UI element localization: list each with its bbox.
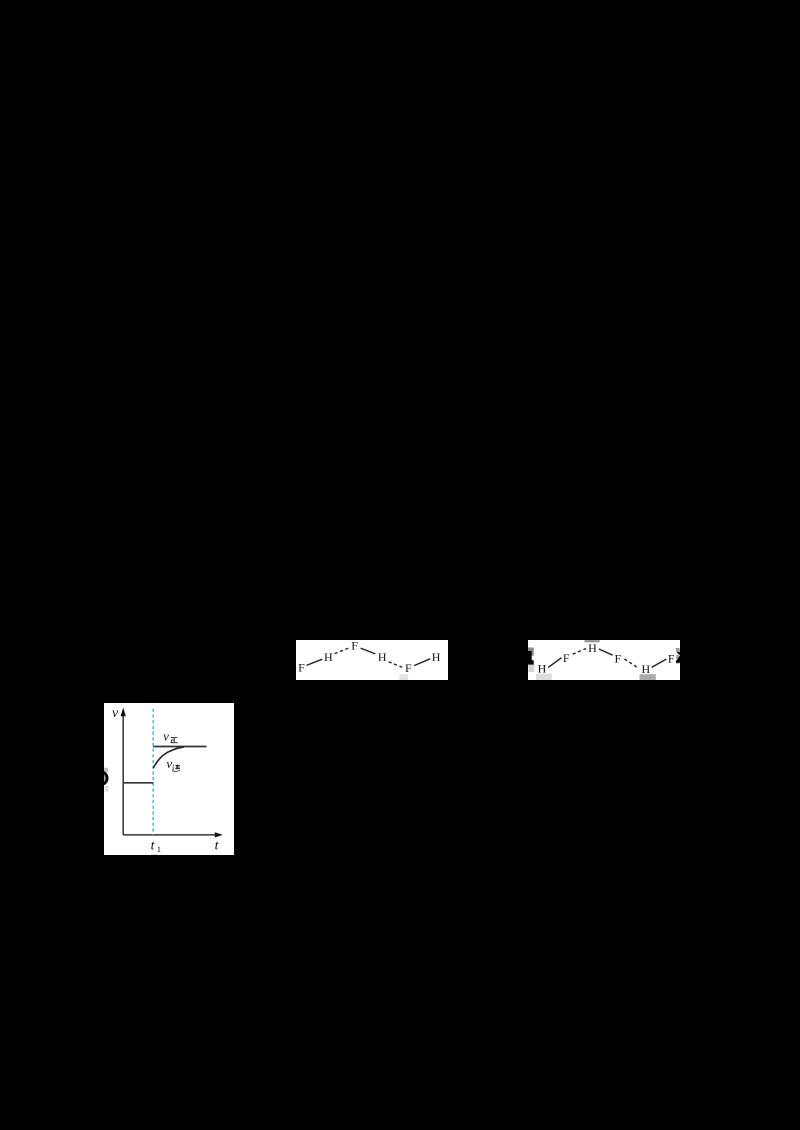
svg-text:t: t — [215, 839, 220, 854]
svg-text:H: H — [538, 661, 547, 675]
svg-text:v: v — [112, 706, 119, 721]
gray smudge below t1 — [151, 853, 158, 856]
gray smudge left edge — [528, 665, 534, 672]
gray smudge below circle — [105, 786, 109, 792]
svg-text:H: H — [641, 662, 650, 676]
svg-text:v: v — [163, 729, 169, 744]
gray smudge under H3 — [640, 674, 656, 680]
svg-text:H: H — [588, 641, 597, 655]
covalent bond F2-H2 — [361, 648, 376, 654]
svg-text:H: H — [324, 650, 333, 664]
svg-text:F: F — [298, 661, 305, 675]
gray smudge inside circle — [104, 774, 107, 782]
gray smudge under H1 — [536, 674, 552, 680]
partial glyph right edge (Z) — [677, 652, 680, 655]
y-axis — [122, 713, 124, 835]
hydrogen bond H1...F2 — [335, 648, 349, 654]
v-forward line — [153, 746, 206, 748]
gray smudge under F3 — [400, 674, 409, 680]
hydrogen bond F2...H3 — [624, 659, 637, 667]
dashed cyan line at t1 — [152, 709, 154, 835]
svg-text:F: F — [614, 651, 621, 665]
HF hydrogen-bond diagram 2 (H-F...H-F...H-F) — [528, 640, 680, 680]
initial rate segment — [123, 782, 153, 784]
svg-text:v: v — [166, 756, 172, 771]
gray smudge above H2 — [585, 640, 600, 642]
HF hydrogen-bond diagram 1 (F-H...F-H...F-H) — [296, 640, 448, 680]
covalent bond H2-F2 — [599, 649, 613, 655]
gray smudge above circle — [104, 768, 108, 773]
partial glyph left edge — [528, 648, 534, 652]
svg-text:F: F — [668, 651, 675, 665]
hydrogen bond F1...H2 — [573, 649, 586, 655]
covalent bond H3-F3 — [652, 659, 667, 667]
svg-text:F: F — [405, 661, 412, 675]
partial circle glyph left edge — [94, 772, 107, 785]
covalent bond F1-H1 — [307, 659, 323, 665]
v-reverse curve — [153, 747, 184, 768]
svg-text:1: 1 — [157, 844, 161, 854]
hydrogen bond H2...F3 — [389, 662, 403, 667]
covalent bond H1-F1 — [548, 658, 561, 668]
svg-text:t: t — [151, 839, 156, 854]
svg-text:H: H — [378, 650, 387, 664]
gray smudge right edge — [676, 648, 680, 652]
svg-text:F: F — [563, 651, 570, 665]
svg-text:F: F — [351, 640, 358, 653]
x-axis — [123, 834, 217, 836]
rate-time graph panel — [104, 703, 234, 855]
svg-text:H: H — [432, 650, 441, 664]
covalent bond F3-H3 — [414, 659, 430, 666]
